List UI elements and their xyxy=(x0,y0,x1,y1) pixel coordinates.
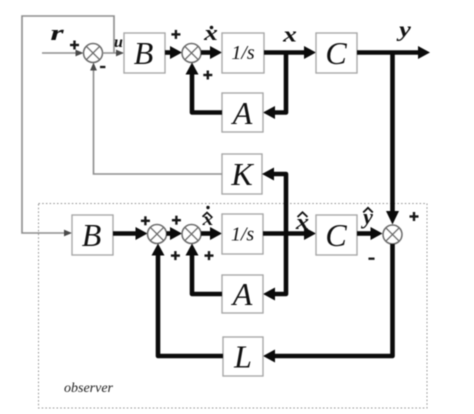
svg-text:A: A xyxy=(231,95,253,131)
wire: S5 output down and left to L (thick) xyxy=(275,244,393,356)
arrowhead y output xyxy=(418,46,430,59)
wire: r input arrowhead xyxy=(76,50,84,57)
svg-text:x: x xyxy=(282,23,297,47)
block C (plant output matrix) xyxy=(316,33,357,73)
wire: L output left and up into S3 (thick) xyxy=(158,253,223,356)
summing junction S3 xyxy=(148,225,167,244)
arrowhead into K right side xyxy=(262,168,274,181)
block K (state feedback gain) xyxy=(222,154,262,194)
svg-text:u: u xyxy=(114,34,123,51)
svg-text:L: L xyxy=(233,339,252,375)
svg-text:K: K xyxy=(230,156,254,192)
svg-text:x: x xyxy=(203,21,218,45)
svg-text:y: y xyxy=(396,17,411,41)
arrowhead into observer C xyxy=(304,227,316,240)
svg-text:B: B xyxy=(82,217,102,253)
node xhatdot label xyxy=(202,206,214,230)
svg-text:A: A xyxy=(231,276,253,312)
wire: xhat branch down to observer A (thick) xyxy=(275,234,286,295)
arrowhead into C xyxy=(304,46,316,59)
node xhat label xyxy=(295,210,309,234)
wire: A output up into S2 (thick) xyxy=(192,72,222,113)
wire: B to S2 (thick) xyxy=(165,50,172,55)
block 1/s observer (integrator) xyxy=(222,214,263,254)
arrowhead up into S3 bottom xyxy=(152,244,165,256)
plus sign at S2 bottom xyxy=(203,71,212,80)
wire: S3 to S4 (thick) xyxy=(167,231,173,236)
wire: observer B to S3 (thick) xyxy=(113,231,137,236)
arrowhead into S5 xyxy=(371,227,383,240)
plus sign at S3 bottom xyxy=(171,251,180,260)
svg-text:r: r xyxy=(50,21,64,46)
node x label xyxy=(282,23,297,47)
svg-text:1/s: 1/s xyxy=(231,224,255,246)
minus sign at S5 bottom xyxy=(368,258,374,260)
summing junction S2 xyxy=(182,44,201,63)
node xdot label xyxy=(203,21,218,45)
block B observer xyxy=(72,215,113,255)
arrowhead into 1/s xyxy=(210,46,222,59)
plus sign at S2 left xyxy=(171,30,180,39)
wire: S1 to block B (u) xyxy=(103,52,123,54)
arrowhead into S3 xyxy=(136,227,148,240)
node yhat label xyxy=(360,204,373,229)
wire: y branch down to S5 (thick) xyxy=(390,53,395,216)
summing junction S4 xyxy=(182,225,201,244)
wire: r input xyxy=(42,52,81,54)
svg-text:C: C xyxy=(325,35,347,71)
svg-text:B: B xyxy=(134,35,154,71)
wire: C to y output (thick) xyxy=(357,50,420,55)
arrowhead up into S4 bottom xyxy=(186,244,199,256)
arrowhead into observer 1/s xyxy=(210,227,222,240)
wire: K output to S1 minus input (thin) xyxy=(94,65,223,174)
arrowhead into A right side xyxy=(263,106,275,119)
wire: 1/s to C with branch node x (thick) xyxy=(264,50,306,55)
block A observer xyxy=(222,275,263,313)
svg-text:1/s: 1/s xyxy=(231,42,255,64)
wire: x branch down to A (thick) xyxy=(275,53,286,113)
wire: observer 1/s to observer C with xhat node (thick) xyxy=(263,231,306,236)
summing junction S1 xyxy=(84,44,103,63)
wire: observer A output up into S4 (thick) xyxy=(192,253,222,294)
plus sign at S4 left xyxy=(172,216,181,225)
block A (plant system matrix) xyxy=(222,93,263,132)
arrowhead up into S2 bottom xyxy=(186,63,199,75)
wire: u tap loop (top-left rectangle down to observer B) xyxy=(22,16,114,233)
arrowhead into S4 xyxy=(170,227,182,240)
block B (plant input matrix) xyxy=(124,33,165,73)
arrowhead into L right side xyxy=(263,350,275,363)
wire: arrowhead into block B xyxy=(116,50,124,57)
wire: S2 to 1/s (thick) xyxy=(201,50,212,55)
plus sign at S3 left xyxy=(141,216,150,225)
arrowhead into observer A right side xyxy=(263,288,275,301)
block 1/s (integrator, plant) xyxy=(222,33,264,73)
node r label xyxy=(50,21,64,46)
wire: u tap arrowhead into observer B xyxy=(64,230,72,237)
node y label xyxy=(396,17,411,41)
wire: xhat tap up into K (thick) xyxy=(274,174,286,234)
minus sign at summing junction S1 xyxy=(100,66,105,68)
arrowhead up into S1 bottom xyxy=(90,63,97,71)
plus sign at summing junction S1 xyxy=(70,41,79,50)
block L (observer gain) xyxy=(223,337,263,376)
observer dotted box xyxy=(39,204,428,409)
wire: S4 to observer 1/s (thick) xyxy=(201,231,212,236)
summing junction S5 xyxy=(383,225,402,244)
plus sign at S4 bottom xyxy=(205,251,214,260)
svg-text:observer: observer xyxy=(64,381,114,396)
block C observer xyxy=(316,215,357,255)
svg-text:C: C xyxy=(325,217,347,253)
arrowhead into S2 xyxy=(170,46,182,59)
plus sign at S5 top xyxy=(410,212,419,221)
arrowhead down into S5 top xyxy=(386,211,399,225)
wire: observer C to S5 (thick) xyxy=(357,231,372,236)
